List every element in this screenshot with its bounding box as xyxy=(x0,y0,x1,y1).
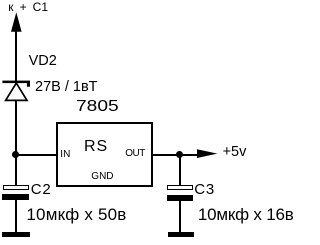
label C3 xyxy=(194,182,215,197)
pin label IN xyxy=(60,150,70,160)
chip label RS xyxy=(84,139,108,155)
value label 10мкф х 16в xyxy=(198,206,294,223)
capacitor C3 (polarized electrolytic) xyxy=(167,185,194,190)
value label 27В / 1вТ xyxy=(35,80,98,95)
label VD2 xyxy=(29,54,57,69)
value label 10мкф х 50в xyxy=(26,206,126,223)
arrow to C1 (up, output to C1) xyxy=(0,0,40,40)
ground (C3) xyxy=(168,232,194,237)
pin label OUT xyxy=(125,149,145,159)
ground (C2) xyxy=(2,232,30,237)
junction node at OUT rail xyxy=(176,151,183,158)
wire: OUT pin to +5v arrow xyxy=(153,154,200,156)
pin label GND xyxy=(91,172,113,182)
node label +5v xyxy=(223,145,247,160)
wire: VD2 anode down to C2 top plate xyxy=(15,100,17,185)
wire: C3 bottom plate to ground xyxy=(179,201,181,232)
zener diode VD2 xyxy=(0,78,36,104)
label C2 xyxy=(31,182,52,197)
wire: C2 bottom plate to ground xyxy=(15,200,17,232)
part number label 7805 xyxy=(76,99,119,115)
arrow to +5v (right) xyxy=(190,145,222,163)
wire: arrow tail down to VD2 cathode xyxy=(15,28,17,81)
wire: junction to IN pin xyxy=(16,154,57,156)
wire: OUT junction down to C3 xyxy=(179,155,181,185)
voltage regulator box RS 7805 xyxy=(56,122,153,187)
junction node at IN rail xyxy=(12,151,19,158)
node label "к + С1" xyxy=(8,1,48,13)
capacitor C2 (polarized electrolytic) xyxy=(3,185,29,190)
